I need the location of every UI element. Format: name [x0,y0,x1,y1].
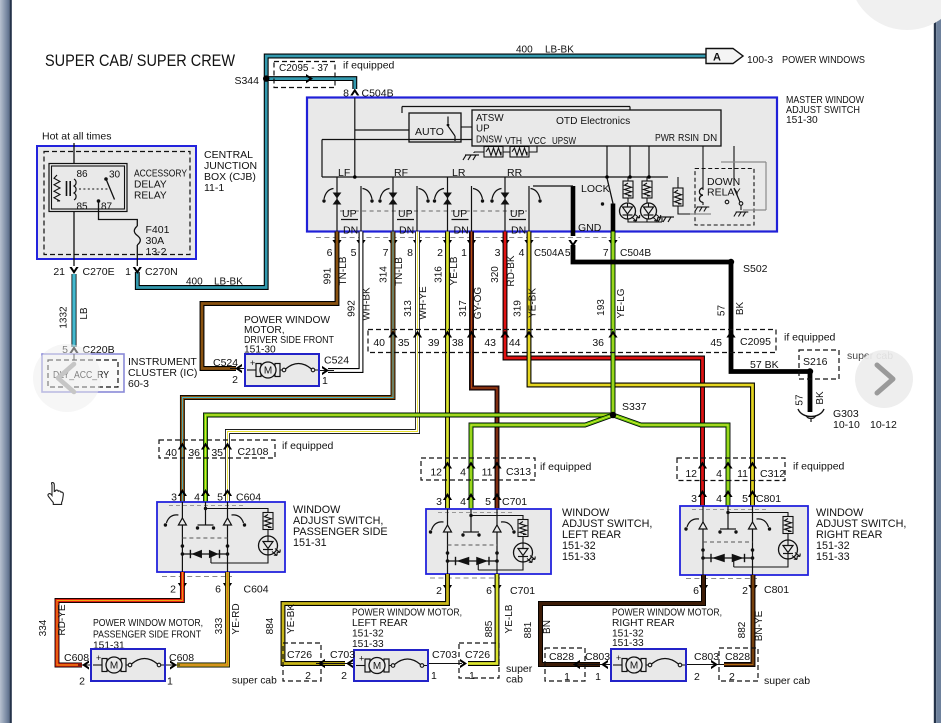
svg-text:DN: DN [454,225,469,237]
C504 connector dashed line [316,237,620,239]
svg-text:193: 193 [596,299,607,316]
connector S216 (super cab) [750,350,893,379]
svg-text:if equipped: if equipped [343,60,395,72]
svg-text:57: 57 [717,305,728,317]
svg-text:10-12: 10-12 [870,419,897,431]
svg-text:60-3: 60-3 [128,378,149,390]
pin 21 C270E [53,266,114,278]
svg-text:881: 881 [523,621,534,638]
svg-text:991: 991 [323,267,334,284]
svg-text:320: 320 [490,266,501,283]
svg-text:85: 85 [77,202,89,213]
wire 992 WH-BK [328,232,373,371]
svg-text:57: 57 [795,394,806,406]
svg-text:884: 884 [265,617,276,634]
svg-text:36: 36 [592,337,604,349]
svg-text:SUPER CAB/ SUPER CREW: SUPER CAB/ SUPER CREW [45,52,235,70]
svg-text:ACCESSORY: ACCESSORY [134,169,187,180]
svg-text:C608: C608 [64,652,89,664]
svg-text:S502: S502 [743,263,768,275]
svg-text:C726: C726 [465,649,490,661]
label: POWER WINDOW MOTOR, LEFT REAR 151-32 151-33 [352,608,462,651]
C604 bottom pins [170,583,269,596]
svg-text:C504A: C504A [534,248,564,259]
label: CENTRAL JUNCTION BOX (CJB) 11-1 [204,149,257,194]
svg-text:TN-LB: TN-LB [338,256,349,285]
svg-text:151-32: 151-32 [352,629,384,640]
svg-text:C2108: C2108 [238,446,269,458]
svg-text:2: 2 [79,676,85,688]
svg-text:C801: C801 [764,584,789,596]
power window motor passenger side front [78,649,180,681]
power window motor left rear [316,650,462,681]
svg-text:M: M [110,661,118,672]
svg-text:RR: RR [507,167,523,179]
svg-text:1: 1 [461,247,467,259]
svg-text:S344: S344 [234,75,259,87]
svg-text:6: 6 [215,584,221,596]
connector A to power windows [706,49,865,67]
svg-text:21: 21 [53,266,65,278]
svg-text:6: 6 [327,247,333,259]
svg-text:4: 4 [519,247,525,259]
svg-text:2: 2 [170,584,176,596]
wire 314 TN-LB [182,232,405,503]
svg-text:C270N: C270N [145,266,178,278]
svg-text:POWER WINDOW MOTOR,: POWER WINDOW MOTOR, [612,608,722,619]
svg-text:+: + [250,358,255,368]
indicator LED 2 with resistor [641,177,661,221]
svg-text:UP: UP [510,208,525,220]
svg-text:5: 5 [565,248,571,259]
wire 882 BN-YE [724,575,765,665]
svg-text:1332: 1332 [59,306,70,329]
window adjust switch passenger side [157,502,285,575]
power window motor right rear [573,649,724,681]
pin 8 C504B [343,88,393,100]
svg-text:UP: UP [453,208,468,220]
svg-text:12: 12 [430,467,442,479]
svg-text:35: 35 [211,447,223,459]
svg-text:4: 4 [716,493,722,505]
svg-text:C801: C801 [756,493,781,505]
label: POWER WINDOW MOTOR, PASSENGER SIDE FRONT 151-31 [93,618,203,652]
svg-text:2: 2 [305,670,311,682]
wire YE-LG S337 branch to left rear switch [471,415,613,509]
svg-text:+: + [616,653,621,663]
svg-text:6: 6 [486,585,492,597]
svg-text:C703: C703 [330,649,355,661]
svg-text:YE-LB: YE-LB [504,604,515,633]
wire 991 TN-LB [202,232,349,369]
svg-text:Hot at all times: Hot at all times [42,131,111,143]
down relay (dashed) [695,169,754,226]
connector C524 pins [213,355,349,388]
mechanical link dashed [340,210,527,212]
connector C828 right (super cab) [719,648,810,687]
svg-text:C701: C701 [510,585,535,597]
LOCK switch [581,178,613,206]
lock output wire to pin7 C504B [611,204,616,237]
svg-text:40: 40 [373,337,385,349]
wire 317 GY-OG [458,232,497,510]
svg-text:4: 4 [460,496,466,508]
svg-text:44: 44 [509,337,521,349]
svg-text:36: 36 [188,447,200,459]
svg-text:A: A [713,52,721,64]
svg-text:WH-YE: WH-YE [418,286,429,320]
svg-text:C803: C803 [694,651,719,663]
window adjust switch right rear [680,506,808,578]
svg-text:2: 2 [341,670,347,682]
svg-text:11: 11 [482,467,493,479]
svg-text:2: 2 [694,671,700,683]
wire 885 YE-LB [468,574,515,664]
AUTO switch [409,113,472,142]
svg-text:151-33: 151-33 [612,638,644,649]
C604 dashed line [162,576,232,578]
svg-text:GND: GND [578,222,602,234]
C801 top pins [691,490,781,505]
RF rocker switch [378,167,429,237]
window adjust switch left rear [426,509,551,577]
svg-text:AUTO: AUTO [415,126,444,138]
svg-text:UP: UP [476,124,490,135]
svg-text:151-30: 151-30 [786,115,818,126]
node S502 [728,259,768,275]
svg-text:LB-BK: LB-BK [545,45,574,56]
svg-text:400: 400 [516,45,533,56]
wire 1332 LB [59,274,91,347]
svg-text:PWR: PWR [655,133,675,144]
svg-text:5: 5 [742,493,748,505]
svg-text:if equipped: if equipped [793,461,845,473]
master window adjust switch box [307,98,777,232]
svg-text:313: 313 [403,300,414,317]
svg-text:1: 1 [167,676,173,688]
svg-text:RIGHT REAR: RIGHT REAR [612,618,675,629]
connector C312 (if equipped) [677,458,845,481]
svg-text:2: 2 [742,585,748,597]
ui prev button [33,344,101,412]
connector C2095-37 (if equipped) [274,60,395,88]
power window motor driver side front [230,354,334,386]
dropping resistor [673,177,690,214]
wire 57 BK to ground [795,391,827,406]
svg-text:334: 334 [38,619,49,636]
svg-text:2: 2 [437,247,443,259]
svg-text:333: 333 [214,617,225,634]
connector C726 right (super cab) [459,643,533,686]
indicator LED 1 with resistor [620,177,640,221]
svg-text:if equipped: if equipped [540,461,592,473]
svg-text:C604: C604 [244,584,269,596]
connector C2108 (if equipped) [159,440,334,459]
svg-text:RELAY: RELAY [134,191,167,202]
svg-text:LOCK: LOCK [581,183,610,195]
svg-text:LEFT REAR: LEFT REAR [352,618,408,629]
accessory delay relay [49,164,127,213]
svg-text:5: 5 [485,496,491,508]
svg-text:1: 1 [595,671,601,683]
svg-text:12: 12 [685,468,697,480]
label: ACCESSORY DELAY RELAY [134,169,187,202]
svg-text:M: M [630,661,638,672]
svg-text:11-1: 11-1 [204,182,224,194]
svg-text:YE-BK: YE-BK [528,288,539,318]
svg-text:DN: DN [343,225,358,237]
svg-text:882: 882 [737,621,748,638]
wire LB-BK branch S344 to C504B [266,79,355,89]
svg-text:2: 2 [729,671,735,683]
main bus inside master switch [322,146,668,179]
node S337 [610,401,647,418]
label: Hot at all times [42,131,111,143]
wire 57 BK from C504A [573,245,810,412]
fuse F401 30A 13-2 [134,224,169,266]
svg-text:LF: LF [338,167,350,179]
svg-text:13-2: 13-2 [146,246,167,258]
svg-text:BN-YE: BN-YE [754,610,765,641]
wire hot feed into relay pin 86/85 [73,143,75,266]
svg-text:POWER WINDOW MOTOR,: POWER WINDOW MOTOR, [93,618,203,629]
connector C313 (if equipped) [421,458,592,480]
svg-text:WH-BK: WH-BK [362,287,373,321]
svg-text:10-10: 10-10 [833,419,860,431]
svg-text:+: + [96,653,101,663]
svg-text:7: 7 [603,248,609,259]
svg-text:35: 35 [398,337,410,349]
svg-text:38: 38 [452,337,464,349]
svg-text:43: 43 [484,337,496,349]
down relay coil [695,146,709,212]
label: POWER WINDOW MOTOR, RIGHT REAR 151-32 151-33 [612,608,722,650]
svg-text:5: 5 [351,247,357,259]
svg-text:2: 2 [232,374,238,386]
svg-text:400: 400 [186,277,203,288]
down relay contact [690,146,766,217]
wire 334 RD-YE [38,572,182,665]
svg-text:YE-RD: YE-RD [231,603,242,634]
RR rocker switch [490,167,541,237]
svg-text:C504B: C504B [620,248,651,259]
instrument cluster (IC) box [42,354,124,392]
svg-text:DN: DN [399,225,414,237]
node S344 [234,75,269,87]
connector C703 pins [318,649,467,682]
svg-text:1: 1 [125,266,131,278]
label: WINDOW ADJUST SWITCH, RIGHT REAR 151-32 151-33 [816,507,906,563]
svg-text:151-33: 151-33 [562,551,596,563]
svg-text:1: 1 [469,670,475,682]
svg-text:DELAY: DELAY [134,180,167,191]
ground G303 [798,408,897,431]
svg-text:POWER WINDOWS: POWER WINDOWS [782,55,865,66]
connector C608 pins [64,652,277,688]
label: WINDOW ADJUST SWITCH, LEFT REAR 151-32 151-33 [562,507,652,563]
svg-text:1: 1 [564,671,570,683]
C701 top pins [436,493,527,508]
svg-text:C524: C524 [213,357,238,369]
OTD electronics module [472,110,721,147]
ui next button [855,350,913,408]
resistors under OTD with ground [463,146,537,160]
wire pin8 feed inside switch [355,98,630,178]
svg-text:86: 86 [77,169,89,180]
svg-text:1: 1 [431,670,437,682]
svg-text:UPSW: UPSW [552,136,577,147]
svg-text:C270E: C270E [83,266,115,278]
svg-text:if equipped: if equipped [784,332,836,344]
C701 dashed line [430,577,500,579]
svg-text:RSIN: RSIN [678,133,699,144]
svg-text:VTH: VTH [505,136,522,147]
svg-text:YE-LG: YE-LG [616,288,627,318]
svg-text:LB-BK: LB-BK [214,277,243,288]
svg-text:S337: S337 [622,401,647,413]
svg-text:3: 3 [495,247,501,259]
svg-text:C803: C803 [585,651,610,663]
svg-text:40: 40 [165,447,177,459]
wire relay 87 to fuse F401 [99,201,138,226]
svg-text:30: 30 [109,170,121,181]
wire 316 YE-LB [434,232,461,510]
svg-text:151-33: 151-33 [816,551,850,563]
connector C803 pins [573,651,719,683]
wire YE-LG S337 branch to passenger switch [206,415,614,502]
svg-text:C524: C524 [324,355,349,367]
node S216 [807,368,813,374]
wire 320 RD-BK [490,232,703,507]
svg-text:BK: BK [735,302,746,316]
C604 top pins [171,489,261,504]
svg-text:DNSW: DNSW [476,135,503,146]
svg-text:45: 45 [710,337,722,349]
svg-text:S216: S216 [803,356,828,368]
wire 319 YE-BK [513,232,753,507]
svg-text:151-31: 151-31 [293,537,327,549]
wire 884 YE-BK [265,574,448,664]
LED ground [628,217,674,222]
svg-text:151-33: 151-33 [352,639,384,650]
connector C726 left (super cab) [283,643,321,682]
svg-text:VCC: VCC [528,136,546,147]
connector C828 left [545,648,585,683]
svg-text:GY-OG: GY-OG [473,287,484,320]
LR rocker switch [433,167,484,237]
svg-text:LR: LR [452,167,466,179]
svg-text:C703: C703 [432,649,457,661]
svg-text:319: 319 [513,300,524,317]
svg-text:885: 885 [484,620,495,637]
svg-text:8: 8 [407,247,413,259]
svg-text:POWER WINDOW MOTOR,: POWER WINDOW MOTOR, [352,608,462,619]
svg-text:3: 3 [691,493,697,505]
svg-text:if equipped: if equipped [282,440,334,452]
svg-text:BK: BK [815,391,826,405]
C801 dashed line [686,578,757,580]
svg-text:DN: DN [511,225,526,237]
svg-text:cab: cab [506,674,523,686]
svg-text:316: 316 [434,266,445,283]
svg-text:C726: C726 [287,649,312,661]
central junction box (CJB) [37,146,196,259]
svg-text:317: 317 [458,300,469,317]
svg-text:M: M [264,366,272,377]
svg-text:super cab: super cab [764,675,810,687]
C504 connector pins at master switch bottom [327,240,652,259]
wire 313 WH-YE [228,232,430,503]
svg-text:3: 3 [436,496,442,508]
svg-text:11: 11 [737,468,748,480]
GND wire to pin5 C504A [533,186,602,236]
svg-text:BN: BN [542,620,553,634]
LF rocker switch [322,167,373,237]
wire 400 LB-BK [137,45,706,288]
svg-text:992: 992 [347,300,358,317]
C701 bottom pins [436,585,535,597]
svg-text:87: 87 [101,202,113,213]
svg-text:C828: C828 [549,651,574,663]
svg-text:4: 4 [716,468,722,480]
connector C2095 (if equipped) [368,330,836,353]
pin 1 C270N [125,266,178,278]
svg-text:C608: C608 [169,652,194,664]
svg-text:OTD Electronics: OTD Electronics [556,116,630,127]
title SUPER CAB/ SUPER CREW [45,52,235,70]
wire 881 BN [523,575,704,665]
svg-text:39: 39 [428,337,440,349]
svg-text:M: M [373,661,381,672]
svg-text:C2095: C2095 [740,336,771,348]
DNSW line [322,140,472,178]
wire 333 YE-RD [177,572,242,665]
svg-text:C828: C828 [725,651,750,663]
svg-text:7: 7 [383,247,389,259]
svg-text:PASSENGER SIDE FRONT: PASSENGER SIDE FRONT [93,630,201,641]
svg-text:ATSW: ATSW [476,113,504,124]
svg-text:+: + [359,654,364,664]
svg-text:RD-BK: RD-BK [506,255,517,286]
svg-text:RF: RF [394,167,408,179]
svg-text:LB: LB [79,307,90,320]
svg-text:super cab: super cab [232,676,277,687]
wire YE-LG S337 branch to right rear switch [613,415,728,506]
svg-text:TN-LB: TN-LB [394,257,405,286]
pin 5 C220B [62,344,114,356]
svg-text:UP: UP [342,208,357,220]
ui hand cursor [48,483,63,505]
svg-text:6: 6 [693,585,699,597]
svg-text:C2095 - 37: C2095 - 37 [279,63,329,74]
wire 193 YE-LG [596,232,627,416]
svg-text:YE-BK: YE-BK [286,604,297,634]
C801 bottom pins [693,584,789,597]
svg-text:2: 2 [436,585,442,597]
svg-text:1: 1 [322,375,328,387]
svg-text:57 BK: 57 BK [750,359,779,371]
svg-text:DN: DN [703,133,717,144]
label: INSTRUMENT CLUSTER (IC) 60-3 [128,356,197,390]
svg-text:C701: C701 [502,496,527,508]
svg-text:C312: C312 [760,468,785,480]
svg-text:4: 4 [460,467,466,479]
svg-text:UP: UP [398,208,413,220]
label: POWER WINDOW MOTOR, DRIVER SIDE FRONT 151-30 [244,315,334,356]
label: WINDOW ADJUST SWITCH, PASSENGER SIDE 151-31 [293,504,388,549]
label: MASTER WINDOW ADJUST SWITCH 151-30 [786,95,864,126]
svg-text:314: 314 [379,266,390,283]
